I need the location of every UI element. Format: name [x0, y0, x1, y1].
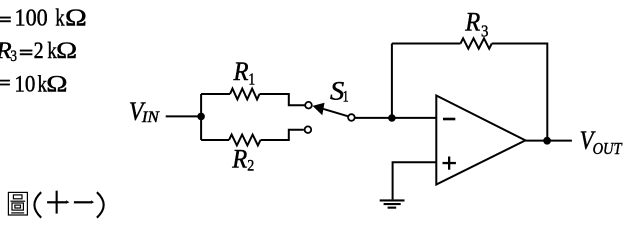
value label line 1: =100 kOhm	[0, 6, 87, 32]
node output junction	[543, 137, 551, 145]
svg-text:2: 2	[247, 158, 254, 175]
figure caption: open parenthesis	[34, 192, 41, 218]
wire top branch right	[260, 94, 305, 105]
resistor R3 label	[464, 8, 488, 41]
ground	[380, 199, 405, 208]
wire feedback top right and right vertical	[492, 44, 548, 141]
svg-text:Ω: Ω	[46, 72, 67, 98]
wire non-inverting input	[393, 162, 437, 199]
resistor R2	[229, 135, 260, 146]
node feedback junction	[388, 114, 396, 122]
wire branch vertical	[200, 94, 202, 140]
op-amp U1	[436, 96, 525, 185]
wire pivot to op-amp inverting input	[355, 117, 437, 119]
wire VIN lead	[166, 115, 201, 117]
svg-text:Ω: Ω	[56, 38, 77, 63]
svg-text:100: 100	[15, 6, 48, 32]
svg-text:k: k	[55, 6, 64, 32]
svg-text:3: 3	[10, 48, 17, 65]
wire feedback left vertical	[391, 44, 393, 119]
switch S1 pole arm	[323, 109, 348, 116]
svg-text:R: R	[231, 145, 247, 174]
op-amp non-inverting input plus sign	[443, 157, 456, 170]
switch throw contact bottom	[305, 126, 312, 133]
resistor R1	[230, 89, 260, 100]
node VOUT label	[580, 125, 623, 158]
wire output	[525, 140, 572, 142]
switch S1 arrow head	[313, 103, 325, 116]
figure caption: close parenthesis	[97, 192, 104, 218]
value label line 2: R3 = 2 kOhm	[0, 38, 77, 65]
wire bottom branch left	[201, 139, 229, 141]
svg-text:1: 1	[248, 69, 255, 88]
figure caption: character ten	[47, 191, 69, 214]
svg-text:OUT: OUT	[593, 139, 623, 158]
wire feedback top left	[392, 43, 461, 45]
svg-text:3: 3	[481, 22, 488, 41]
svg-text:1: 1	[343, 89, 349, 106]
svg-text:IN: IN	[141, 109, 160, 126]
op-amp inverting input minus sign	[443, 118, 455, 121]
wire bottom branch right	[261, 130, 304, 140]
svg-text:10: 10	[14, 72, 35, 98]
node input junction	[197, 113, 205, 121]
figure caption: character one	[74, 200, 94, 204]
resistor R2 label	[231, 145, 254, 175]
svg-text:R: R	[464, 8, 480, 37]
resistor R1 label	[233, 57, 256, 88]
svg-text:R: R	[233, 57, 249, 86]
switch S1 label	[330, 77, 349, 106]
wire top branch left	[201, 93, 230, 95]
value label line 3: =10 kOhm	[0, 72, 68, 98]
resistor R3	[461, 38, 492, 48]
node VIN label	[129, 97, 160, 126]
switch S1 pivot contact	[348, 114, 355, 121]
figure caption: character Tu (figure)	[8, 192, 27, 215]
switch throw contact top	[305, 102, 312, 109]
svg-text:2: 2	[34, 38, 44, 63]
svg-text:Ω: Ω	[65, 6, 87, 32]
